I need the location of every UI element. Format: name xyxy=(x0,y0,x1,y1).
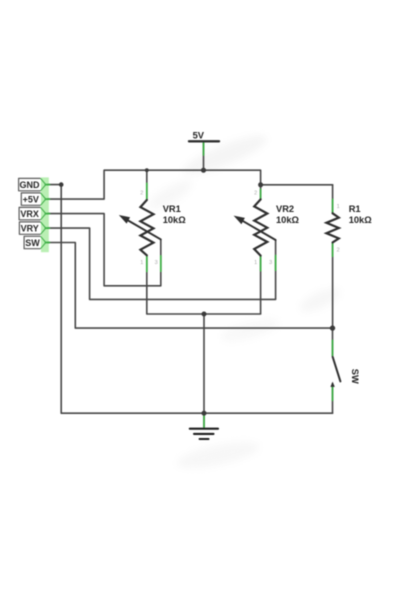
svg-text:5V: 5V xyxy=(193,131,205,141)
svg-text:10kΩ: 10kΩ xyxy=(276,215,300,225)
svg-text:3: 3 xyxy=(155,260,158,266)
svg-text:GND: GND xyxy=(20,180,41,190)
svg-text:VR2: VR2 xyxy=(276,204,294,214)
svg-text:1: 1 xyxy=(140,260,143,266)
svg-text:SW: SW xyxy=(350,369,360,384)
svg-text:3: 3 xyxy=(269,260,272,266)
svg-text:R1: R1 xyxy=(349,204,361,214)
svg-text:SW: SW xyxy=(25,238,40,248)
svg-text:VRY: VRY xyxy=(21,223,39,233)
svg-text:10kΩ: 10kΩ xyxy=(349,215,373,225)
svg-text:10kΩ: 10kΩ xyxy=(163,215,187,225)
svg-text:+5V: +5V xyxy=(23,194,39,204)
svg-text:VR1: VR1 xyxy=(163,204,181,214)
svg-text:2: 2 xyxy=(140,191,143,197)
svg-text:1: 1 xyxy=(254,260,257,266)
svg-text:1: 1 xyxy=(337,204,340,210)
svg-text:2: 2 xyxy=(337,248,340,254)
svg-text:VRX: VRX xyxy=(20,209,39,219)
svg-text:2: 2 xyxy=(254,191,257,197)
